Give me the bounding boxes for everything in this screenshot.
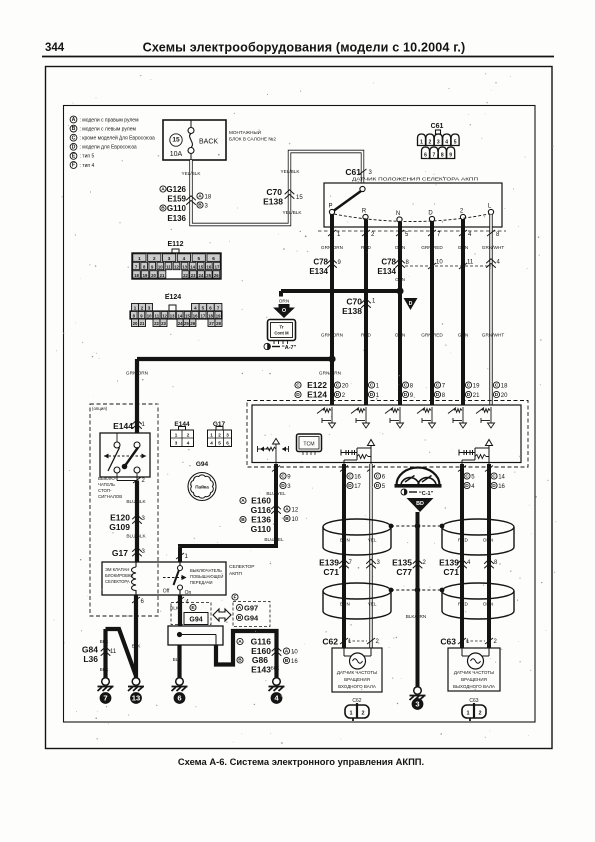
svg-text:С: С bbox=[495, 383, 499, 389]
svg-text:20: 20 bbox=[501, 393, 508, 399]
svg-text:ДАТЧИК ЧАСТОТЫ: ДАТЧИК ЧАСТОТЫ bbox=[337, 670, 377, 675]
wire BRN (input shaft sensor) bbox=[342, 464, 346, 648]
pins C6/D5 bbox=[374, 473, 380, 479]
svg-text:2: 2 bbox=[429, 140, 432, 146]
svg-text:С: С bbox=[296, 383, 300, 389]
svg-text:RED: RED bbox=[458, 538, 469, 543]
svg-text:ЭМ КЛАПАН: ЭМ КЛАПАН bbox=[105, 567, 129, 572]
junction on wire 1 bbox=[328, 355, 335, 362]
svg-text:В: В bbox=[72, 126, 76, 132]
transmission case cylinder upper-left bbox=[323, 519, 391, 535]
svg-text:9: 9 bbox=[449, 153, 452, 159]
wire 2 RED vertical bbox=[364, 220, 368, 406]
Tr Cont M module icon bbox=[268, 320, 296, 341]
svg-text:ORN: ORN bbox=[483, 602, 493, 607]
svg-text:RED: RED bbox=[361, 333, 372, 338]
TCM solid box bbox=[252, 405, 521, 463]
svg-text:C62: C62 bbox=[322, 637, 338, 647]
svg-text:2: 2 bbox=[142, 478, 146, 484]
contact 2 bbox=[460, 214, 465, 219]
svg-text:2: 2 bbox=[460, 208, 464, 214]
svg-text:BLK: BLK bbox=[170, 606, 180, 611]
svg-text:6: 6 bbox=[212, 256, 215, 261]
ground for BLK/ORN bbox=[414, 687, 422, 695]
svg-text:19: 19 bbox=[143, 273, 148, 278]
svg-text:3: 3 bbox=[175, 441, 178, 446]
svg-text:BLU/BLK: BLU/BLK bbox=[126, 534, 146, 539]
svg-text:G126: G126 bbox=[166, 185, 186, 194]
svg-text:5: 5 bbox=[471, 475, 475, 481]
svg-text:G109: G109 bbox=[109, 522, 130, 532]
ground 4 bbox=[273, 678, 281, 686]
selector lever arm bbox=[360, 186, 365, 191]
svg-text:“A-7”: “A-7” bbox=[282, 345, 297, 351]
switch pin 4 bbox=[176, 597, 184, 603]
svg-text:E120: E120 bbox=[110, 513, 130, 523]
connector G126/E159/G110/E136 on fuse wire bbox=[186, 196, 196, 200]
svg-text:Cont M: Cont M bbox=[274, 331, 289, 336]
svg-text:BACK: BACK bbox=[199, 139, 218, 146]
svg-text:20: 20 bbox=[133, 321, 138, 326]
svg-text:А: А bbox=[161, 187, 165, 193]
svg-text:В: В bbox=[285, 658, 289, 664]
svg-text:E136: E136 bbox=[251, 515, 271, 525]
svg-text:2: 2 bbox=[423, 560, 427, 566]
TCM output symbol for BLU/YEL bbox=[273, 439, 280, 445]
svg-text:8: 8 bbox=[496, 232, 500, 238]
svg-text:1: 1 bbox=[466, 711, 469, 717]
svg-text:3: 3 bbox=[142, 549, 146, 555]
svg-text:1: 1 bbox=[376, 384, 380, 390]
svg-text:: тип 5: : тип 5 bbox=[80, 154, 95, 160]
svg-text:СЕЛЕКТОР: СЕЛЕКТОР bbox=[229, 564, 254, 570]
svg-text:YEL: YEL bbox=[368, 602, 377, 607]
svg-text:1: 1 bbox=[185, 554, 189, 560]
svg-text:E135: E135 bbox=[392, 558, 412, 568]
contact P bbox=[329, 209, 334, 214]
svg-text:E122: E122 bbox=[307, 380, 327, 390]
pins C20/D2 bbox=[334, 382, 340, 388]
svg-text:BD: BD bbox=[416, 501, 424, 507]
svg-text:C63: C63 bbox=[440, 637, 456, 647]
svg-text:С: С bbox=[376, 474, 380, 480]
svg-text:А: А bbox=[241, 498, 245, 504]
svg-text:E124: E124 bbox=[165, 294, 181, 301]
svg-text:МОНТАЖНЫЙ: МОНТАЖНЫЙ bbox=[229, 128, 261, 135]
svg-text:P: P bbox=[328, 203, 332, 209]
svg-text:14: 14 bbox=[498, 475, 505, 481]
svg-text:G110: G110 bbox=[251, 524, 272, 534]
junction dots lower bbox=[389, 588, 394, 593]
svg-text:1: 1 bbox=[348, 639, 352, 645]
O/D switch pin 1 bbox=[176, 553, 184, 559]
svg-text:19: 19 bbox=[473, 384, 480, 390]
svg-text:А: А bbox=[285, 507, 289, 513]
pin 11 on wire 5 bbox=[459, 263, 467, 269]
wire BLU/YEL from TCM to O/D switch bbox=[180, 464, 276, 562]
wire staircase to ground 4 bbox=[216, 631, 277, 678]
svg-text:15: 15 bbox=[198, 265, 203, 270]
svg-text:: модели с левым рулем: : модели с левым рулем bbox=[80, 126, 137, 132]
pointer to schema A-7 bbox=[264, 343, 270, 349]
svg-text:On: On bbox=[185, 590, 192, 596]
svg-text:11: 11 bbox=[467, 260, 474, 266]
svg-text:10: 10 bbox=[292, 517, 299, 523]
TCM output pin ticks bbox=[272, 466, 280, 472]
svg-text:GRN: GRN bbox=[458, 245, 468, 250]
svg-text:F: F bbox=[234, 595, 237, 601]
wire branch to G84/L36 bbox=[106, 629, 137, 676]
pins C1/D1 bbox=[368, 382, 374, 388]
svg-text:6: 6 bbox=[141, 599, 145, 605]
svg-text:1: 1 bbox=[142, 422, 146, 428]
TCM input circuit symbol bbox=[399, 407, 401, 423]
connector A E160 G116 / B E136 G110 bbox=[240, 497, 246, 503]
svg-text:C61: C61 bbox=[431, 123, 444, 130]
case link dashed line lower bbox=[391, 589, 442, 591]
svg-text:А: А bbox=[285, 649, 289, 655]
TCM input circuit symbol bbox=[462, 407, 464, 423]
svg-text:7: 7 bbox=[103, 694, 107, 703]
svg-text:10: 10 bbox=[436, 260, 443, 266]
TCM input circuit symbol bbox=[431, 407, 433, 423]
svg-text:Off: Off bbox=[163, 589, 170, 595]
fuse rating circled 15 bbox=[170, 134, 182, 146]
svg-text:12: 12 bbox=[174, 265, 179, 270]
labels A G126 E159 / B G110 E136 bbox=[160, 186, 166, 192]
connector row C E122 / D E124 bbox=[295, 382, 301, 388]
pins C7/D8 bbox=[434, 382, 440, 388]
svg-text:ЧАТЕЛЬ: ЧАТЕЛЬ bbox=[98, 482, 115, 487]
svg-text:344: 344 bbox=[45, 42, 65, 54]
svg-text:24: 24 bbox=[199, 273, 204, 278]
svg-text:C70: C70 bbox=[266, 187, 282, 197]
contact R bbox=[363, 214, 368, 219]
svg-text:5: 5 bbox=[382, 484, 386, 490]
svg-text:21: 21 bbox=[473, 393, 480, 399]
pin 2 bbox=[133, 477, 141, 483]
junction on wire 3 bbox=[396, 287, 403, 294]
svg-text:C77: C77 bbox=[396, 567, 412, 577]
svg-text:С: С bbox=[436, 383, 440, 389]
ground 7 bbox=[102, 678, 110, 686]
svg-text:С: С bbox=[281, 474, 285, 480]
TCM label chip bbox=[297, 434, 322, 452]
svg-text:GRN/WHT: GRN/WHT bbox=[482, 245, 505, 250]
svg-text:23: 23 bbox=[161, 321, 166, 326]
sensor pin numbers 1 2 5 7 4 8 bbox=[328, 230, 336, 236]
svg-text:18: 18 bbox=[134, 273, 139, 278]
svg-text:E139: E139 bbox=[319, 558, 339, 568]
svg-text:3: 3 bbox=[205, 203, 209, 209]
TCM input circuit symbol bbox=[490, 407, 492, 423]
svg-text:C70: C70 bbox=[346, 297, 362, 307]
svg-text:1: 1 bbox=[138, 256, 141, 261]
TCM input circuit symbol bbox=[365, 407, 367, 423]
svg-text:19: 19 bbox=[216, 313, 221, 318]
svg-text:22: 22 bbox=[154, 321, 159, 326]
svg-text:(опция): (опция) bbox=[92, 406, 108, 411]
svg-text:9: 9 bbox=[338, 260, 342, 266]
svg-text:4: 4 bbox=[468, 232, 472, 238]
svg-text:26: 26 bbox=[214, 273, 219, 278]
ground 13 bbox=[132, 678, 140, 686]
svg-text:G17: G17 bbox=[112, 548, 128, 558]
svg-text:BLK: BLK bbox=[173, 657, 183, 662]
svg-text:6: 6 bbox=[424, 153, 427, 159]
svg-text:ВХОДНОГО ВАЛА: ВХОДНОГО ВАЛА bbox=[338, 684, 376, 689]
G94 reference (E variant) bbox=[171, 603, 211, 625]
svg-text:С: С bbox=[370, 383, 374, 389]
svg-text:N: N bbox=[396, 211, 400, 217]
svg-text:: тип 4: : тип 4 bbox=[80, 163, 95, 169]
svg-text:6: 6 bbox=[382, 475, 386, 481]
svg-text:3: 3 bbox=[437, 140, 440, 146]
svg-text:D: D bbox=[370, 392, 374, 398]
wire to ground 6 bbox=[177, 645, 181, 678]
stop lamp switch box bbox=[100, 433, 150, 477]
svg-text:ORN: ORN bbox=[279, 299, 289, 304]
svg-text:4: 4 bbox=[210, 441, 213, 446]
svg-text:15: 15 bbox=[172, 137, 180, 144]
svg-text:D: D bbox=[428, 210, 433, 216]
svg-text:3: 3 bbox=[226, 433, 229, 438]
svg-text:3: 3 bbox=[415, 700, 419, 709]
svg-text:11: 11 bbox=[110, 649, 117, 655]
svg-text:2: 2 bbox=[494, 639, 498, 645]
svg-text:G97: G97 bbox=[244, 604, 258, 613]
transmission case cylinder upper-right bbox=[442, 519, 514, 535]
svg-text:YEL/BLK: YEL/BLK bbox=[181, 171, 201, 176]
svg-text:D: D bbox=[467, 392, 471, 398]
svg-text:G86: G86 bbox=[252, 655, 268, 665]
wire 3 ORN vertical bbox=[398, 222, 402, 405]
svg-text:18: 18 bbox=[501, 384, 508, 390]
svg-text:E138: E138 bbox=[342, 306, 362, 316]
svg-text:C78: C78 bbox=[313, 258, 328, 267]
svg-text:24: 24 bbox=[178, 321, 183, 326]
svg-text:25: 25 bbox=[206, 273, 211, 278]
svg-text:ВРАЩЕНИЯ: ВРАЩЕНИЯ bbox=[344, 677, 370, 682]
connector A G116 E160 / B G86 E143 bbox=[237, 638, 243, 644]
svg-text:18: 18 bbox=[205, 194, 212, 200]
option dashed box bbox=[90, 404, 158, 616]
svg-text:D: D bbox=[348, 483, 352, 489]
svg-text:СЕЛЕКТОРА: СЕЛЕКТОРА bbox=[105, 579, 130, 584]
svg-text:GRN/RED: GRN/RED bbox=[421, 245, 443, 250]
case link dashed line upper bbox=[391, 525, 442, 527]
solenoid pin 6 bbox=[132, 597, 140, 603]
svg-text:27: 27 bbox=[209, 321, 214, 326]
svg-text:С: С bbox=[336, 383, 340, 389]
svg-text:ORN: ORN bbox=[483, 538, 493, 543]
pointer to connector C-1 bbox=[401, 489, 407, 495]
svg-text:ORN: ORN bbox=[395, 277, 405, 282]
svg-text:3: 3 bbox=[287, 484, 291, 490]
wire 1 GRN/ORN vertical bbox=[330, 215, 334, 406]
svg-text:21: 21 bbox=[140, 321, 145, 326]
pins C14/D16 bbox=[491, 473, 497, 479]
svg-text:С: С bbox=[465, 474, 469, 480]
svg-text:11: 11 bbox=[155, 313, 160, 318]
svg-text:G94: G94 bbox=[196, 461, 209, 468]
svg-text:ПЕРЕДАЧИ: ПЕРЕДАЧИ bbox=[190, 580, 213, 585]
svg-text:8: 8 bbox=[410, 384, 414, 390]
svg-text:16: 16 bbox=[291, 659, 298, 665]
svg-text:ДАТЧИК ПОЛОЖЕНИЯ СЕЛЕКТОРА АКП: ДАТЧИК ПОЛОЖЕНИЯ СЕЛЕКТОРА АКПП bbox=[352, 177, 478, 182]
svg-text:17: 17 bbox=[200, 313, 205, 318]
svg-text:2: 2 bbox=[342, 393, 346, 399]
pin numbers A18 B3 bbox=[197, 193, 203, 199]
svg-text:D: D bbox=[495, 392, 499, 398]
svg-text:C61: C61 bbox=[345, 167, 361, 177]
transmission case cylinder lower-right bbox=[442, 583, 514, 599]
svg-text:26: 26 bbox=[190, 321, 195, 326]
svg-text:СТОП-: СТОП- bbox=[98, 488, 112, 493]
svg-text:G116: G116 bbox=[251, 637, 272, 647]
svg-text:16: 16 bbox=[354, 475, 361, 481]
svg-text:7: 7 bbox=[349, 560, 353, 566]
svg-text:E124: E124 bbox=[307, 390, 327, 400]
svg-text:D: D bbox=[376, 483, 380, 489]
svg-text:20: 20 bbox=[342, 384, 349, 390]
svg-text:BLK: BLK bbox=[132, 644, 142, 649]
pins C9/D3 bbox=[280, 473, 286, 479]
svg-text:В: В bbox=[161, 206, 165, 212]
svg-text:9: 9 bbox=[287, 475, 291, 481]
svg-text:ВЫХОДНОГО ВАЛА: ВЫХОДНОГО ВАЛА bbox=[453, 684, 495, 689]
svg-text:10: 10 bbox=[291, 650, 298, 656]
svg-text:ДАТЧИК ЧАСТОТЫ: ДАТЧИК ЧАСТОТЫ bbox=[454, 670, 494, 675]
svg-text:E139: E139 bbox=[439, 558, 459, 568]
svg-text:С: С bbox=[492, 474, 496, 480]
svg-text:RED: RED bbox=[458, 602, 469, 607]
svg-text:“C-1”: “C-1” bbox=[419, 491, 434, 497]
svg-text:4: 4 bbox=[445, 140, 448, 146]
svg-text:YEL/BLK: YEL/BLK bbox=[282, 210, 302, 215]
svg-text:1: 1 bbox=[349, 711, 352, 717]
svg-text:E159: E159 bbox=[167, 195, 186, 204]
svg-text:А: А bbox=[238, 605, 242, 611]
svg-text:3: 3 bbox=[377, 560, 381, 566]
ground number 3 bbox=[412, 698, 424, 710]
svg-text:L36: L36 bbox=[83, 654, 98, 664]
svg-text:2: 2 bbox=[361, 711, 364, 717]
transmission case cylinder lower-left bbox=[323, 583, 391, 599]
svg-text:1: 1 bbox=[376, 393, 380, 399]
svg-text:8: 8 bbox=[442, 393, 446, 399]
svg-text:12: 12 bbox=[162, 313, 167, 318]
svg-text:D: D bbox=[404, 392, 408, 398]
svg-text:2: 2 bbox=[218, 433, 221, 438]
svg-text:BLU/YEL: BLU/YEL bbox=[264, 537, 284, 542]
svg-text:BLK: BLK bbox=[100, 639, 110, 644]
header rule bbox=[42, 56, 554, 58]
TCM outer dashed box bbox=[247, 401, 528, 468]
svg-text:D: D bbox=[492, 483, 496, 489]
svg-text:9: 9 bbox=[410, 393, 414, 399]
TCM input circuit symbol bbox=[331, 407, 333, 423]
svg-text:GRN/RED: GRN/RED bbox=[421, 333, 443, 338]
svg-text:D: D bbox=[296, 392, 300, 398]
svg-text:1: 1 bbox=[420, 140, 423, 146]
svg-text:23: 23 bbox=[191, 273, 196, 278]
TCM solenoid driver circuit (left) bbox=[343, 460, 345, 464]
svg-text:GRN/ORN: GRN/ORN bbox=[321, 333, 343, 338]
svg-text:1: 1 bbox=[210, 433, 213, 438]
svg-text:G84: G84 bbox=[82, 645, 98, 655]
ground junction box bbox=[168, 626, 223, 645]
svg-text:ВРАЩЕНИЯ: ВРАЩЕНИЯ bbox=[461, 677, 487, 682]
svg-text:СИГНАЛОВ: СИГНАЛОВ bbox=[98, 494, 122, 499]
GRN/ORN branch wire to stop-lamp switch bbox=[137, 357, 332, 361]
svg-text:7: 7 bbox=[437, 232, 441, 238]
switch link dashed arrow bbox=[104, 455, 146, 457]
wire YEL/BLK from fuse to C61 pin 3 bbox=[191, 152, 363, 225]
svg-text:G116: G116 bbox=[251, 505, 272, 515]
wire GRN/ORN down to stop lamp switch bbox=[135, 359, 139, 433]
svg-text:E136: E136 bbox=[167, 214, 186, 223]
inner diagram frame bbox=[64, 106, 536, 723]
svg-text:D: D bbox=[409, 301, 413, 307]
TCM solenoid driver circuit (right) bbox=[461, 460, 463, 464]
svg-text:BLK: BLK bbox=[271, 666, 281, 671]
C61 connector plane (dashed) bbox=[318, 230, 506, 232]
svg-text:17: 17 bbox=[354, 484, 361, 490]
svg-text:GRN/WHT: GRN/WHT bbox=[482, 333, 505, 338]
contact L bbox=[488, 209, 493, 214]
selector contact path (dashed arc) bbox=[334, 214, 489, 222]
svg-text:2: 2 bbox=[187, 433, 190, 438]
svg-text:Tr: Tr bbox=[280, 325, 284, 330]
svg-text:YEL/BLK: YEL/BLK bbox=[280, 169, 300, 174]
svg-text:BLK/ORN: BLK/ORN bbox=[406, 614, 427, 619]
svg-text:: модели с правым рулем: : модели с правым рулем bbox=[80, 117, 140, 123]
svg-text:3: 3 bbox=[369, 170, 373, 176]
svg-text:С: С bbox=[348, 474, 352, 480]
AT selector position sensor box bbox=[324, 183, 502, 227]
svg-text:ВЫКЛЮЧАТЕЛЬ: ВЫКЛЮЧАТЕЛЬ bbox=[190, 568, 222, 573]
svg-text:GRN: GRN bbox=[458, 333, 468, 338]
pins C8/D9 bbox=[402, 382, 408, 388]
svg-text:В: В bbox=[238, 615, 242, 621]
svg-text:Пайка: Пайка bbox=[195, 484, 209, 490]
switch levers bbox=[108, 448, 120, 472]
svg-text:E144: E144 bbox=[113, 421, 133, 431]
pin 10 on wire 4 bbox=[428, 263, 436, 269]
svg-text:D: D bbox=[72, 144, 76, 150]
arrow O (continuation) to Tr Cont M bbox=[273, 304, 295, 318]
variant F marker bbox=[232, 594, 238, 600]
svg-text:В: В bbox=[241, 517, 245, 523]
svg-text:C71: C71 bbox=[323, 567, 339, 577]
svg-text:C71: C71 bbox=[443, 567, 459, 577]
svg-text:25: 25 bbox=[184, 321, 189, 326]
svg-text:D: D bbox=[465, 483, 469, 489]
AT selector assembly box bbox=[102, 562, 226, 595]
svg-text:ORN: ORN bbox=[395, 333, 405, 338]
fuse element F15 BACK bbox=[190, 120, 192, 128]
svg-text:5: 5 bbox=[197, 256, 200, 261]
substitution arrow bbox=[213, 609, 231, 621]
svg-text:2: 2 bbox=[371, 232, 375, 238]
A G97 / B G94 reference box bbox=[233, 602, 270, 627]
svg-text:ВЫКЛЮ-: ВЫКЛЮ- bbox=[98, 476, 117, 481]
svg-text:16: 16 bbox=[193, 313, 198, 318]
svg-text:8: 8 bbox=[406, 260, 410, 266]
svg-text:GRN/ORN: GRN/ORN bbox=[321, 245, 343, 250]
svg-text:4: 4 bbox=[187, 441, 190, 446]
